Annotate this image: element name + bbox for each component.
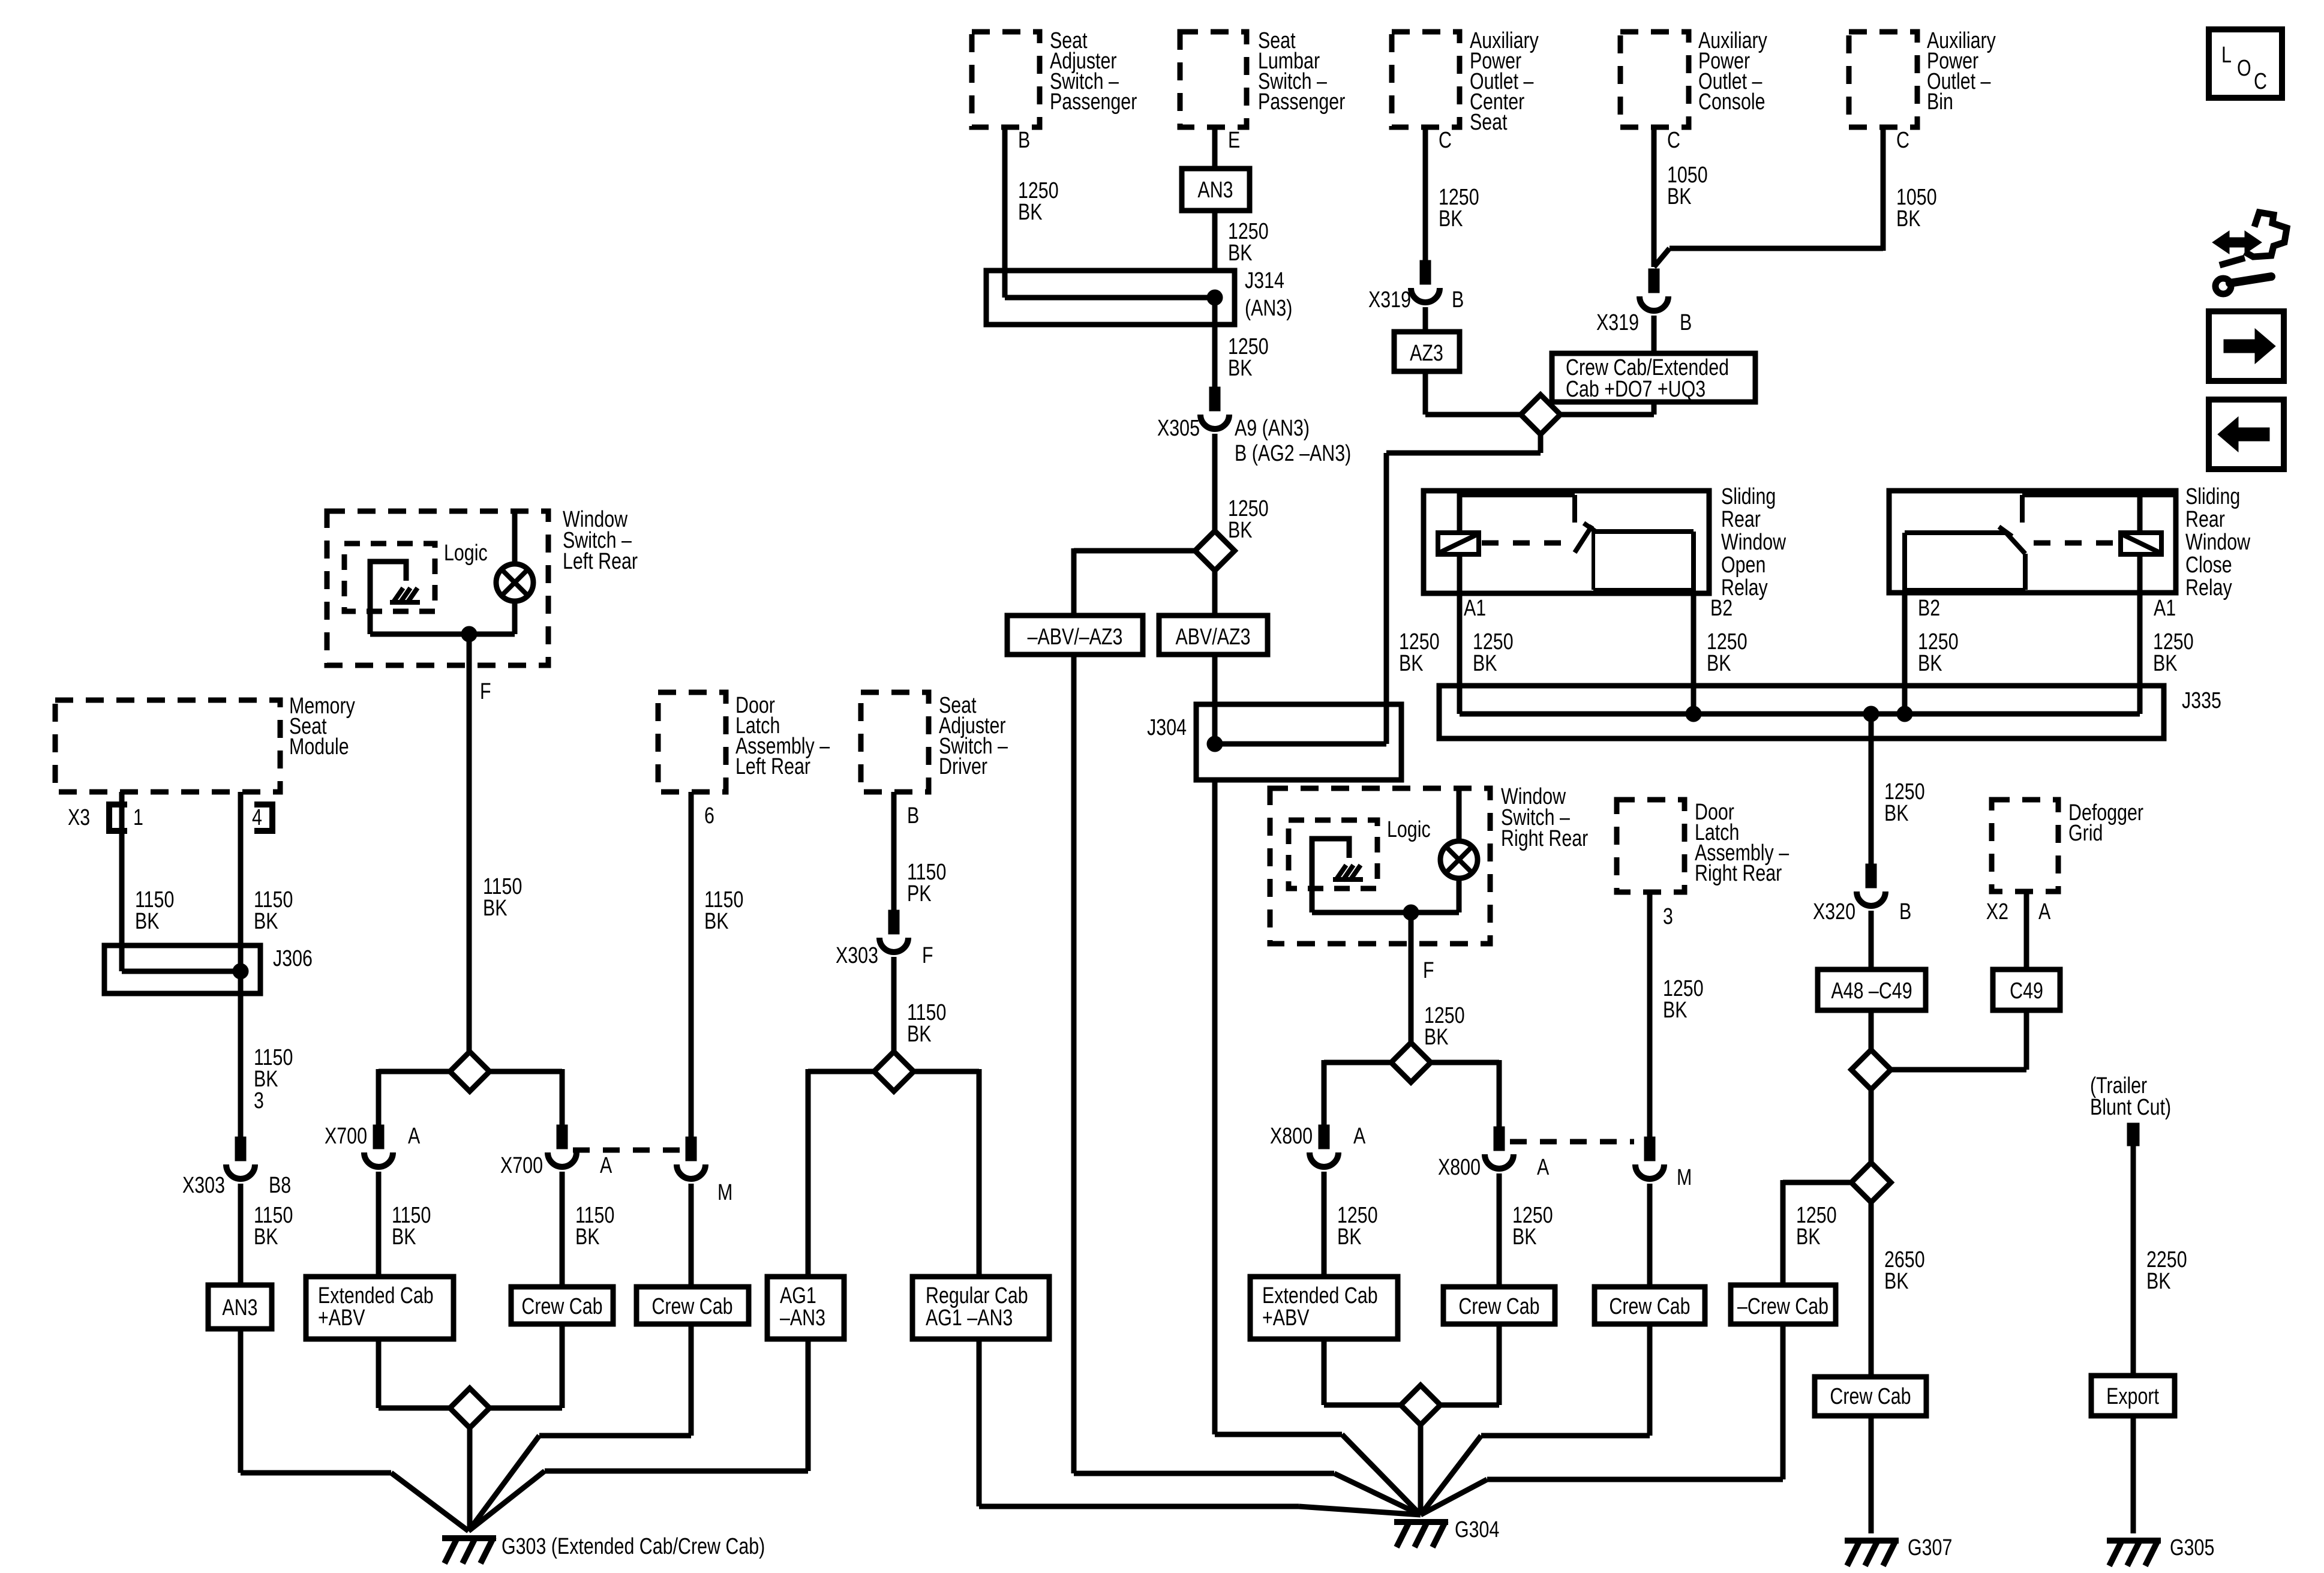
connector X800 pin A (crew cab) (1438, 1127, 1549, 1180)
svg-text:Window: Window (1721, 530, 1786, 555)
wire inside J304 with junction and riser to Crew Cab diamond (1207, 434, 1541, 752)
label 1250 BK (center seat wire) (1439, 185, 1479, 232)
wire door latch right rear pin 3 down (1650, 892, 1704, 1137)
svg-text:Left Rear: Left Rear (735, 754, 810, 779)
splice J306 box (104, 945, 313, 993)
svg-text:Seat: Seat (1470, 110, 1508, 135)
svg-text:Crew Cab: Crew Cab (651, 1294, 732, 1319)
svg-text:Bin: Bin (1927, 89, 1953, 115)
component Seat Adjuster Switch - Driver (dashed box) (861, 692, 1008, 792)
wire A48-C49 to defogger diamond (1869, 1010, 1874, 1050)
wire X319 console to option box (1652, 316, 1657, 353)
open relay contact to B2 terminal (1592, 532, 1694, 593)
svg-text:4: 4 (252, 805, 262, 830)
label 1250 BK (seat adjuster passenger wire) (1018, 178, 1059, 225)
close relay dashed actuation line (2034, 541, 2121, 546)
wire merge diamond to ground G303 (467, 1428, 473, 1531)
option box Extended Cab +ABV (right) (1250, 1277, 1398, 1339)
svg-text:BK: BK (575, 1224, 600, 1250)
wire AN3 to ground G303 (241, 1329, 469, 1531)
component Door Latch Assembly - Right Rear (dashed box) (1617, 800, 1789, 892)
wire Crew Cab right to ground G304 (1421, 1324, 1650, 1515)
ground G305 (2107, 1535, 2214, 1566)
logic block (left rear switch, dashed) (344, 541, 488, 611)
wire X320 to A48 -C49 box (1869, 911, 1874, 969)
open relay coil pin and coil (1438, 491, 1479, 554)
label 1250 BK (open relay B2) (1707, 629, 1747, 676)
label 1150 BK 3 (below J306) (254, 1045, 293, 1113)
svg-text:Window: Window (2185, 530, 2250, 555)
splice diamond (G304 merge) (1401, 1385, 1440, 1425)
svg-text:Grid: Grid (2068, 821, 2103, 846)
svg-text:F: F (922, 943, 933, 968)
wire Extended Cab +ABV right to merge diamond (1324, 1339, 1402, 1405)
svg-text:BK: BK (1228, 356, 1253, 381)
option box Export (2091, 1376, 2175, 1416)
svg-text:Logic: Logic (444, 541, 488, 566)
open relay terminal labels (1464, 596, 1733, 621)
wire diamond down to ABV/AZ3 (1212, 571, 1218, 616)
ground G304 (1394, 1517, 1499, 1547)
wire J335 internal bus (1460, 706, 2140, 722)
splice diamond (crew cab split) (1851, 1163, 1891, 1202)
connector X320 pin B (1813, 864, 1911, 924)
wire X700 crew cab to Crew Cab box (562, 1172, 614, 1287)
svg-text:Right Rear: Right Rear (1695, 861, 1782, 886)
svg-text:BK: BK (1399, 651, 1424, 676)
svg-text:Console: Console (1698, 89, 1765, 115)
svg-text:X319: X319 (1596, 310, 1639, 335)
component Seat Adjuster Switch - Passenger (dashed box) (972, 28, 1137, 127)
wire AN3 box to J314 (1215, 211, 1269, 271)
svg-text:G304: G304 (1455, 1517, 1499, 1542)
svg-text:F: F (1423, 958, 1434, 983)
svg-text:A1: A1 (2154, 596, 2176, 621)
svg-text:Relay: Relay (2185, 575, 2232, 601)
option box Extended Cab +ABV (left) (306, 1277, 454, 1339)
svg-text:BK: BK (392, 1224, 416, 1250)
connector X303 pin F (836, 910, 933, 968)
logic block (right rear switch, dashed) (1289, 817, 1431, 888)
svg-text:BK: BK (1884, 1269, 1909, 1294)
wire Seat Adjuster Passenger pin B down to J314 (1005, 127, 1030, 272)
svg-text:X319: X319 (1368, 287, 1411, 313)
connector X3 brackets and pins (68, 804, 272, 831)
svg-text:L: L (2221, 43, 2232, 68)
svg-text:(AN3): (AN3) (1245, 296, 1292, 321)
label 1250 BK (open relay A1) (1473, 629, 1514, 676)
svg-text:Rear: Rear (1721, 507, 1761, 532)
option box Crew Cab (x800) (1443, 1287, 1555, 1324)
svg-text:X303: X303 (836, 943, 878, 968)
dashed link X700 to M connector (573, 1148, 681, 1153)
svg-text:Passenger: Passenger (1050, 89, 1137, 115)
svg-text:BK: BK (1896, 206, 1921, 232)
wire close relay B2 to J335 (1897, 593, 1912, 722)
svg-text:X3: X3 (68, 805, 90, 830)
LOC legend box (2209, 29, 2282, 98)
wire logic+lamp junction to pin F (right rear) (1312, 905, 1459, 1044)
logic coil symbol (left rear) (370, 562, 420, 634)
close relay terminal labels (1918, 596, 2176, 621)
svg-text:ABV/AZ3: ABV/AZ3 (1175, 625, 1250, 650)
wire merge diamond to ground G304 (1418, 1425, 1424, 1515)
indicator lamp (left rear switch) (496, 511, 533, 634)
wire bin outlet joins console wire (1654, 248, 1883, 267)
svg-text:AZ3: AZ3 (1410, 341, 1443, 366)
svg-text:AN3: AN3 (222, 1295, 257, 1320)
svg-text:G307: G307 (1908, 1535, 1952, 1560)
connector X319 pin B (center seat) (1368, 260, 1464, 313)
svg-text:C49: C49 (2010, 978, 2043, 1004)
open relay dashed actuation line (1482, 541, 1575, 546)
svg-text:C: C (1439, 128, 1452, 153)
svg-text:A: A (408, 1124, 420, 1149)
svg-text:X2: X2 (1986, 899, 2008, 924)
svg-text:A1: A1 (1464, 596, 1486, 621)
wire diamond left to AG1 -AN3 box (808, 1069, 875, 1277)
svg-text:BK: BK (1663, 998, 1688, 1023)
wire Memory Seat pin 4 down through J306 (241, 792, 293, 1137)
option box Crew Cab (door latch left rear) (636, 1287, 749, 1324)
svg-text:Extended Cab: Extended Cab (1262, 1283, 1378, 1308)
wire Regular Cab box to ground G304 (979, 1339, 1421, 1515)
connector X700 pin A (extended cab) (325, 1124, 420, 1167)
component Auxiliary Power Outlet - Bin (dashed box) (1849, 28, 1996, 127)
option box A48 -C49 (1818, 969, 1926, 1010)
wire diamond right to C49 box (1891, 1010, 2026, 1070)
svg-text:M: M (717, 1180, 732, 1205)
label 1250 BK (riser wire j304) (1399, 629, 1440, 676)
wire X303 F to diamond (894, 957, 946, 1053)
wire ABV/AZ3 down through J304 (1212, 655, 1218, 744)
svg-text:6: 6 (704, 803, 714, 828)
label 1250 BK (right rear switch wire) (1424, 1003, 1465, 1050)
svg-text:BK: BK (1512, 1224, 1537, 1250)
svg-text:X700: X700 (500, 1153, 543, 1178)
svg-text:X303: X303 (182, 1173, 225, 1198)
svg-text:B: B (1452, 287, 1464, 313)
close relay B2 contact line (1905, 533, 2006, 593)
component Window Switch - Left Rear (dashed box) (327, 507, 638, 665)
label 2650 BK (G307 wire) (1884, 1247, 1925, 1294)
wire -Crew Cab to ground G304 (1421, 1324, 1783, 1515)
svg-text:A: A (1353, 1124, 1365, 1149)
svg-text:Close: Close (2185, 553, 2232, 578)
svg-text:M: M (1677, 1165, 1692, 1190)
component Auxiliary Power Outlet - Center Seat (dashed box) (1392, 28, 1539, 135)
ground G303 (442, 1534, 765, 1563)
svg-text:J306: J306 (273, 946, 313, 971)
option box AN3 (memory seat) (208, 1285, 272, 1329)
wire Crew Cab x800 to merge diamond (1439, 1324, 1499, 1405)
svg-text:3: 3 (1663, 904, 1673, 929)
svg-text:A48 –C49: A48 –C49 (1831, 978, 1912, 1004)
option box Crew Cab (G307) (1815, 1377, 1926, 1416)
close relay coil pin and coil (2121, 491, 2161, 554)
arrow-left legend box (2209, 400, 2284, 469)
svg-text:BK: BK (1228, 518, 1253, 543)
wire diamond left to X700 A (379, 1069, 451, 1125)
splice diamond (window switch right rear) (1391, 1043, 1431, 1082)
component Defogger Grid (dashed box) (1992, 800, 2143, 891)
wire seat adjuster driver pin B down (894, 792, 946, 910)
svg-text:+ABV: +ABV (318, 1305, 365, 1331)
svg-text:C: C (2254, 69, 2267, 94)
svg-text:O: O (2237, 56, 2251, 81)
wire Seat Lumbar pin E down (1215, 127, 1240, 169)
wire J304 down to G304 (1215, 780, 1421, 1515)
svg-text:BK: BK (1707, 651, 1731, 676)
option box AZ3 (1394, 332, 1460, 371)
svg-text:E: E (1228, 128, 1240, 153)
wire AZ3 to crew-cab diamond (1425, 371, 1522, 415)
wire diamond left to -Crew Cab box (1783, 1180, 1851, 1285)
svg-text:A9 (AN3): A9 (AN3) (1235, 416, 1310, 441)
svg-text:Crew Cab: Crew Cab (1609, 1294, 1690, 1319)
wire -ABV/-AZ3 down to G304 run (1074, 655, 1421, 1515)
wire close relay A1 to J335 (2136, 554, 2140, 714)
wire inside J314 and junction (1005, 272, 1223, 305)
svg-text:C: C (1667, 128, 1680, 153)
wire AG1 -AN3 to ground G303 (469, 1339, 808, 1531)
wire Aux Outlet Bin pin C down (1883, 127, 1909, 251)
svg-text:–Crew Cab: –Crew Cab (1737, 1294, 1828, 1319)
option box Regular Cab AG1 -AN3 (912, 1277, 1049, 1339)
wire J314 to X305 (1212, 298, 1218, 387)
svg-text:BK: BK (704, 909, 729, 934)
svg-text:Logic: Logic (1387, 817, 1431, 842)
wire M connector to Crew Cab box (door latch) (689, 1184, 694, 1287)
splice diamond (crew cab/extended cab) (1521, 395, 1560, 434)
wire Crew Cab door latch to G303 (469, 1324, 691, 1531)
label 1050 BK (bin wire) (1896, 185, 1937, 232)
svg-text:J335: J335 (2182, 688, 2221, 713)
svg-text:Blunt Cut): Blunt Cut) (2090, 1095, 2171, 1120)
wire defogger diamond down to crew cab diamond (1869, 1089, 1874, 1163)
svg-text:BK: BK (1884, 801, 1909, 826)
connector M (door latch left rear) (677, 1137, 732, 1205)
svg-text:BK: BK (1918, 651, 1942, 676)
label 1150 BK (left rear switch wire) (483, 874, 522, 921)
label 1250 BK (close relay B2) (1918, 629, 1959, 676)
svg-text:BK: BK (1018, 200, 1043, 225)
svg-text:B: B (1899, 899, 1911, 924)
svg-text:Left Rear: Left Rear (563, 549, 638, 574)
wire X800 to Extended Cab +ABV box (right) (1324, 1172, 1378, 1277)
wire Aux Outlet Console pin C down (1654, 127, 1680, 267)
svg-text:Driver: Driver (939, 754, 987, 779)
svg-text:Crew Cab: Crew Cab (1830, 1384, 1911, 1409)
wire Memory Seat pin 1 down to J306 (122, 792, 174, 971)
svg-text:Cab +DO7 +UQ3: Cab +DO7 +UQ3 (1566, 377, 1706, 402)
splice J314 (AN3) box (986, 268, 1292, 325)
svg-text:J314: J314 (1245, 268, 1284, 293)
svg-text:X800: X800 (1270, 1124, 1313, 1149)
wire X700 to Extended Cab +ABV box (379, 1172, 431, 1277)
svg-text:AG1: AG1 (780, 1283, 816, 1308)
wire Extended Cab +ABV to merge diamond (379, 1339, 451, 1408)
svg-text:Crew Cab: Crew Cab (521, 1294, 602, 1319)
svg-text:Extended Cab: Extended Cab (318, 1283, 434, 1308)
wire X303 to AN3 box (241, 1184, 293, 1285)
svg-text:Rear: Rear (2185, 507, 2225, 532)
wire logic+lamp junction to pin F (left rear) (370, 626, 515, 1053)
connector X800 pin A (extended cab) (1270, 1124, 1365, 1167)
svg-text:A: A (600, 1153, 612, 1178)
svg-text:Regular Cab: Regular Cab (926, 1283, 1028, 1308)
svg-text:B: B (907, 803, 919, 828)
wire diamond left to X800 A (1324, 1060, 1392, 1125)
close relay switch blade (1999, 527, 2025, 590)
wire blunt cut to Export box (2131, 1146, 2136, 1376)
connector option box AN3 (1182, 169, 1250, 211)
wire door latch left rear pin 6 down (691, 792, 743, 1137)
wire diamond right to X700 A (crew cab) (488, 1069, 562, 1125)
dashed link X800 to M connector (1510, 1139, 1634, 1145)
harness routing icon (arrow + wrench) (2212, 212, 2287, 294)
svg-text:G305: G305 (2170, 1535, 2214, 1560)
label 1250 BK (-Crew Cab wire) (1796, 1203, 1837, 1250)
splice J335 box (1439, 686, 2221, 739)
svg-text:Right Rear: Right Rear (1501, 826, 1588, 851)
wire Crew Cab to merge diamond (488, 1324, 562, 1408)
svg-text:BK: BK (907, 1022, 932, 1047)
connector X303 pin B8 (182, 1137, 291, 1198)
wire Aux Outlet Center Seat pin C down (1425, 127, 1452, 260)
open relay inner contact outline (1461, 495, 1694, 590)
svg-text:G303 (Extended Cab/Crew Cab): G303 (Extended Cab/Crew Cab) (502, 1534, 765, 1559)
svg-text:Module: Module (289, 734, 349, 760)
component Auxiliary Power Outlet - Console (dashed box) (1620, 28, 1768, 127)
option box Crew Cab/Extended Cab +DO7 +UQ3 (1552, 353, 1755, 402)
svg-text:Passenger: Passenger (1258, 89, 1345, 115)
svg-text:Sliding: Sliding (1721, 484, 1776, 509)
wire open relay B2 to J335 (1686, 593, 1701, 722)
wire X319 to AZ3 box (1423, 307, 1428, 332)
svg-text:–AN3: –AN3 (780, 1305, 825, 1331)
svg-text:1: 1 (133, 805, 143, 830)
wire open relay A1 to J335 (1460, 554, 1463, 714)
svg-text:AN3: AN3 (1197, 178, 1233, 203)
close relay fixed contact (1905, 495, 2173, 590)
splice diamond (window switch left rear) (450, 1052, 490, 1091)
wire option box to diamond right branch (1560, 402, 1654, 415)
label 1250 BK (above ABV/AZ3 diamond) (1228, 496, 1269, 543)
svg-text:B (AG2 –AN3): B (AG2 –AN3) (1235, 441, 1351, 466)
option box -Crew Cab (1731, 1285, 1836, 1324)
wire Crew Cab to ground G307 (1869, 1416, 1874, 1533)
svg-text:BK: BK (2146, 1269, 2171, 1294)
component Memory Seat Module (dashed box) (55, 694, 355, 792)
wire J335 down to X320 (1869, 714, 1874, 864)
svg-text:–ABV/–AZ3: –ABV/–AZ3 (1028, 625, 1123, 650)
svg-text:A: A (2038, 899, 2050, 924)
option box Crew Cab (door latch right rear) (1595, 1287, 1705, 1324)
wire X305 to splice diamond (1212, 434, 1218, 531)
label 2250 BK (export wire) (2146, 1247, 2187, 1294)
svg-text:BK: BK (1439, 206, 1463, 232)
arrow-right legend box (2209, 311, 2284, 381)
svg-text:B: B (1680, 310, 1692, 335)
svg-text:BK: BK (1424, 1025, 1449, 1050)
indicator lamp (right rear switch) (1440, 788, 1478, 912)
svg-text:F: F (480, 679, 491, 704)
option box -ABV/-AZ3 (1007, 616, 1143, 655)
relay Sliding Rear Window Close Relay box (1889, 484, 2250, 601)
svg-text:Crew Cab: Crew Cab (1458, 1294, 1539, 1319)
wire diamond right to Regular Cab box (912, 1069, 979, 1277)
label 1250 BK (close relay A1) (2153, 629, 2194, 676)
label 1050 BK (console wire) (1667, 163, 1708, 209)
connector X700 pin A (crew cab) (500, 1125, 612, 1178)
svg-text:J304: J304 (1147, 715, 1187, 740)
splice diamond (G303 merge) (450, 1388, 490, 1428)
component Door Latch Assembly - Left Rear (dashed box) (658, 692, 830, 792)
label 1250 BK (below J314) (1228, 334, 1269, 381)
wire diamond down to Crew Cab (G307) (1869, 1202, 1874, 1377)
wire Export to ground G305 (2131, 1416, 2136, 1533)
blunt cut terminal (2127, 1123, 2139, 1146)
option box AG1 -AN3 (767, 1277, 844, 1339)
svg-text:BK: BK (2153, 651, 2178, 676)
connector X319 pin B (console) (1596, 269, 1692, 335)
svg-text:C: C (1896, 128, 1909, 153)
svg-text:B2: B2 (1918, 596, 1940, 621)
svg-text:X305: X305 (1157, 416, 1200, 441)
wire diamond right to X800 A (crew cab) (1430, 1060, 1499, 1127)
svg-text:AG1 –AN3: AG1 –AN3 (926, 1305, 1013, 1331)
component Seat Lumbar Switch - Passenger (dashed box) (1180, 28, 1345, 127)
splice J304 box (1147, 704, 1401, 780)
wire M to Crew Cab box (door latch right) (1647, 1184, 1653, 1287)
svg-text:B2: B2 (1710, 596, 1733, 621)
svg-text:X320: X320 (1813, 899, 1855, 924)
svg-text:BK: BK (1667, 184, 1692, 209)
svg-text:PK: PK (907, 881, 932, 906)
svg-text:Sliding: Sliding (2185, 484, 2240, 509)
svg-text:BK: BK (1337, 1224, 1362, 1250)
connector M (door latch right rear) (1635, 1137, 1692, 1190)
wire C49 to defogger grid pin A (1986, 891, 2051, 969)
label Trailer Blunt Cut (2090, 1073, 2171, 1120)
option box C49 (1993, 969, 2060, 1010)
svg-text:BK: BK (483, 896, 508, 921)
svg-text:BK: BK (135, 909, 160, 934)
svg-text:B8: B8 (269, 1173, 291, 1198)
component Window Switch - Right Rear (dashed box) (1270, 784, 1588, 944)
svg-text:BK: BK (1228, 241, 1253, 266)
relay Sliding Rear Window Open Relay box (1424, 484, 1786, 601)
svg-text:BK: BK (254, 909, 278, 934)
svg-text:A: A (1537, 1155, 1549, 1180)
svg-text:BK: BK (1473, 651, 1497, 676)
svg-text:+ABV: +ABV (1262, 1305, 1310, 1331)
label 1250 BK (J335 to X320) (1884, 779, 1925, 826)
splice diamond (ABV/AZ3 split) (1195, 531, 1235, 571)
svg-text:X700: X700 (325, 1124, 367, 1149)
splice diamond (seat adjuster driver) (874, 1052, 914, 1091)
ground G307 (1845, 1535, 1952, 1566)
svg-text:BK: BK (254, 1224, 278, 1250)
svg-text:Open: Open (1721, 553, 1765, 578)
connector X305 pin A9 (1157, 387, 1351, 466)
wire inside J306 junction (122, 963, 248, 979)
splice diamond (defogger) (1851, 1050, 1891, 1089)
option box Crew Cab (x700) (511, 1287, 613, 1324)
svg-text:BK: BK (1796, 1224, 1821, 1250)
open relay switch blade (1575, 523, 1596, 553)
